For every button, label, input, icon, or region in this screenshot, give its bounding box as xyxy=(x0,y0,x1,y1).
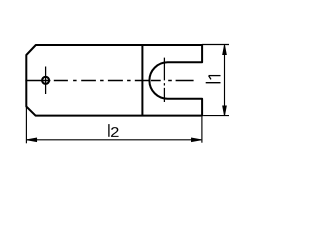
hole vertical centre mark xyxy=(45,67,47,95)
label l2: digit 2 xyxy=(111,127,119,137)
edge line between sections xyxy=(141,45,143,116)
extension line l2 left xyxy=(25,107,27,143)
label l1 (rotated): l bar xyxy=(206,82,221,84)
horizontal centre line xyxy=(25,80,193,82)
dimension line l1 xyxy=(224,45,226,115)
label l2: l bar xyxy=(108,124,110,137)
arrow right xyxy=(192,138,202,142)
label l1: digit 1 stem xyxy=(209,75,221,77)
arrow left xyxy=(27,138,37,142)
arrow up xyxy=(223,45,227,55)
hole xyxy=(42,77,49,84)
extension line top right xyxy=(202,44,229,46)
slot arc vertical centre line xyxy=(163,58,165,102)
dimension line l2 xyxy=(27,139,201,141)
extension line bottom right xyxy=(203,115,229,117)
arrow down xyxy=(223,106,227,116)
label l1: digit 1 flag xyxy=(209,76,211,79)
extension line l2 right xyxy=(201,117,203,143)
part outline xyxy=(26,45,202,116)
